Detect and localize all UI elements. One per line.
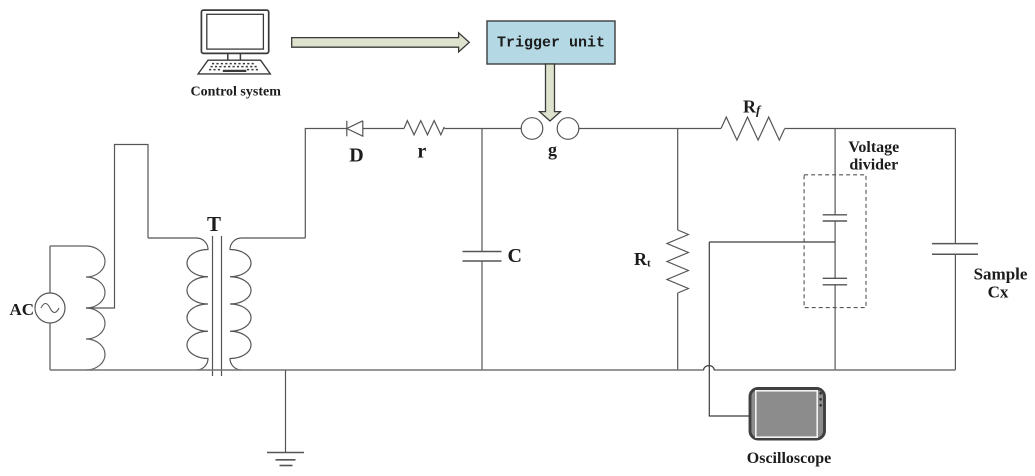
wire divider tap to oscilloscope — [709, 242, 835, 416]
arrow trigger unit to spark gap — [540, 64, 561, 121]
capacitor C — [463, 252, 502, 262]
svg-text:Voltage: Voltage — [848, 139, 899, 156]
node junction C branch — [481, 129, 483, 252]
variac coil — [50, 246, 105, 370]
svg-text:Control system: Control system — [191, 85, 282, 100]
resistor Rt branch wire — [677, 129, 679, 231]
svg-text:Sample: Sample — [974, 265, 1028, 284]
wire spark gap to Rf — [579, 128, 721, 130]
svg-text:Oscilloscope: Oscilloscope — [747, 450, 831, 467]
svg-text:r: r — [417, 141, 426, 163]
transformer core — [212, 236, 214, 376]
ground stub — [285, 370, 287, 453]
wire secondary top to HV line — [305, 129, 347, 239]
svg-text:g: g — [548, 140, 557, 160]
svg-text:D: D — [349, 145, 363, 167]
wire Rt to bus — [677, 293, 679, 370]
wire C to bus — [481, 261, 483, 370]
ground symbol — [267, 452, 304, 454]
arrow control system to trigger unit — [292, 33, 470, 52]
AC source — [35, 293, 65, 323]
wire hop over bus — [704, 366, 715, 371]
sample capacitor Cx branch — [954, 129, 956, 244]
svg-text:Rt: Rt — [634, 249, 651, 270]
wire AC bottom — [49, 323, 51, 370]
svg-text:AC: AC — [10, 300, 35, 319]
bottom bus wire with hop — [50, 369, 955, 371]
resistor r — [404, 121, 444, 135]
wire r to spark gap — [444, 128, 521, 130]
voltage divider capacitor 2 — [823, 278, 847, 285]
wire Rf to right edge — [785, 128, 956, 130]
voltage divider dashed box — [804, 175, 866, 308]
svg-text:Cx: Cx — [988, 283, 1009, 302]
wire AC top to variac — [49, 246, 51, 293]
voltage divider branch — [834, 129, 836, 215]
svg-text:T: T — [207, 212, 221, 236]
computer icon (control system) — [198, 10, 270, 74]
diode D — [347, 121, 363, 136]
spark gap g — [521, 118, 543, 140]
wire diode to resistor r — [363, 128, 404, 130]
sample capacitor Cx — [932, 244, 978, 255]
resistor Rf — [721, 117, 785, 140]
transformer T secondary winding — [230, 238, 305, 370]
trigger unit box — [487, 21, 615, 64]
voltage divider capacitor 1 — [823, 215, 847, 221]
svg-text:divider: divider — [849, 157, 898, 174]
wire variac tap — [86, 145, 148, 309]
transformer T primary winding — [148, 238, 208, 370]
svg-text:C: C — [508, 245, 522, 267]
resistor Rt — [667, 230, 688, 293]
svg-text:Rf: Rf — [743, 97, 762, 118]
svg-text:Trigger unit: Trigger unit — [497, 35, 605, 52]
oscilloscope icon — [750, 389, 825, 440]
